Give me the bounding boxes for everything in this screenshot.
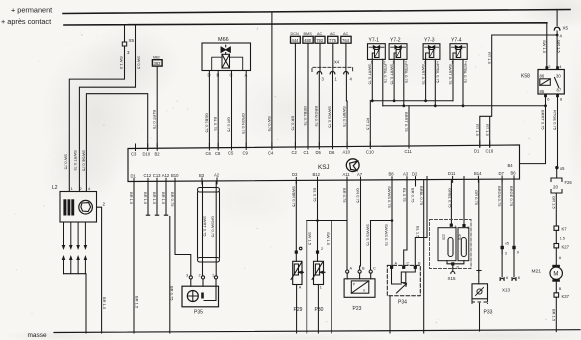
spark plug arrows up bbox=[64, 259, 86, 274]
svg-text:GR 1.5: GR 1.5 bbox=[556, 40, 561, 53]
svg-text:C11: C11 bbox=[405, 149, 413, 154]
svg-text:RTGE 0.75: RTGE 0.75 bbox=[553, 110, 558, 131]
svg-text:1: 1 bbox=[334, 77, 337, 82]
svg-text:X5: X5 bbox=[129, 38, 135, 43]
svg-text:X15: X15 bbox=[448, 276, 457, 281]
wire gnd drop 2 bbox=[330, 221, 332, 334]
svg-text:SWWS 0.75: SWWS 0.75 bbox=[384, 224, 389, 247]
wire 480 to KSJ C1 bbox=[307, 43, 309, 146]
svg-text:B12: B12 bbox=[313, 172, 321, 177]
svg-text:A10: A10 bbox=[343, 150, 351, 155]
wire K37 to masse BR 1.5 bbox=[555, 297, 557, 331]
wire M66 D to KSJ C6 bbox=[208, 71, 210, 147]
svg-text:BR 1.5: BR 1.5 bbox=[102, 297, 107, 310]
wire KSJ A12 stub bbox=[164, 181, 167, 215]
svg-text:A: A bbox=[350, 267, 353, 271]
connector X5 pin 3 bbox=[122, 42, 126, 46]
wire M66 B to KSJ C8 bbox=[217, 71, 219, 147]
junction B8 bus bbox=[391, 219, 394, 222]
svg-text:BRRT 0.75: BRRT 0.75 bbox=[404, 112, 409, 132]
svg-text:C8: C8 bbox=[215, 151, 221, 156]
svg-text:SWBR 0.75: SWBR 0.75 bbox=[291, 186, 296, 208]
svg-text:X5: X5 bbox=[563, 26, 569, 31]
wire M66 A to KSJ C9 bbox=[245, 71, 247, 147]
svg-text:BR 1.5: BR 1.5 bbox=[552, 309, 557, 322]
svg-text:P29: P29 bbox=[294, 307, 303, 313]
wire SWGE from L2 pin 4 to KSJ pin D10 bbox=[86, 94, 147, 192]
wire X4 pin 3 to KSJ D5 bbox=[318, 72, 320, 147]
svg-text:C13: C13 bbox=[153, 173, 161, 178]
svg-text:GRSW 0.75: GRSW 0.75 bbox=[210, 216, 215, 238]
wire K58 pin 6 to KSJ B4 BRRT 0.75 bbox=[520, 94, 546, 164]
KSJ bottom pin ticks bbox=[134, 176, 514, 185]
svg-text:D10: D10 bbox=[143, 151, 151, 156]
wire X13 mid left bbox=[501, 249, 503, 277]
wire KSJ D1 to masse BR 1.5 bbox=[133, 181, 135, 333]
wire M21 to K37 bbox=[555, 282, 557, 293]
ground bar wire to masse bbox=[64, 274, 87, 333]
wire KSJ to X15 pin C bbox=[463, 180, 465, 224]
pressure switch P33 bbox=[478, 272, 480, 284]
wire KSJ D11 to X15 GRBL 0.75 bbox=[450, 181, 452, 224]
wire KSJ B12 to P30 BL 0.75 bbox=[317, 181, 319, 251]
svg-text:C2: C2 bbox=[292, 150, 298, 155]
wire KSJ D7 to X13 BRGN 0.75 bbox=[501, 180, 503, 254]
svg-text:KSJ: KSJ bbox=[318, 164, 330, 171]
svg-text:B10: B10 bbox=[171, 173, 179, 178]
svg-text:C5: C5 bbox=[228, 151, 234, 156]
svg-text:2: 2 bbox=[321, 247, 323, 251]
svg-text:1: 1 bbox=[320, 286, 322, 290]
Opel logo bbox=[346, 159, 359, 172]
svg-text:1.5: 1.5 bbox=[560, 237, 565, 241]
svg-text:BR 0.75: BR 0.75 bbox=[290, 116, 295, 131]
wire KSJ B6 to X13 BRGE 0.75 bbox=[513, 180, 515, 254]
svg-text:SW 0.75: SW 0.75 bbox=[267, 116, 272, 132]
svg-text:B: B bbox=[559, 287, 562, 291]
wire K27 to M21 bbox=[555, 248, 557, 265]
svg-text:GRGN 0.75: GRGN 0.75 bbox=[241, 113, 246, 135]
svg-text:BR 0.75: BR 0.75 bbox=[342, 188, 347, 203]
svg-text:3: 3 bbox=[186, 274, 188, 278]
svg-text:4: 4 bbox=[560, 34, 563, 39]
connector K27 bbox=[554, 244, 559, 248]
bus Y7 pin1 collector bbox=[370, 100, 453, 102]
temp sensor P30 bbox=[317, 254, 319, 262]
svg-text:P35: P35 bbox=[194, 310, 203, 316]
svg-text:220: 220 bbox=[441, 234, 445, 240]
svg-text:8: 8 bbox=[518, 276, 520, 280]
svg-text:6: 6 bbox=[547, 97, 550, 102]
connector 382 bbox=[152, 60, 162, 66]
svg-text:1: 1 bbox=[212, 274, 214, 278]
connector X4 dashed bbox=[312, 67, 353, 71]
connector BMS 480 bbox=[303, 36, 313, 43]
svg-text:SW 1.5: SW 1.5 bbox=[542, 40, 547, 54]
svg-text:C: C bbox=[373, 267, 376, 271]
svg-text:8: 8 bbox=[560, 97, 563, 102]
motor M21 bbox=[552, 265, 560, 267]
wire KSJ A3 to P34 pin C BL 0.75 bbox=[404, 181, 407, 266]
svg-text:SWRT 0.75: SWRT 0.75 bbox=[203, 216, 208, 237]
wire KSJ to masse BRBL 0.75 bbox=[423, 181, 425, 333]
wire X4 pin 4 to KSJ A10 bbox=[345, 72, 347, 101]
svg-text:K7: K7 bbox=[562, 227, 568, 232]
svg-text:2: 2 bbox=[548, 64, 551, 69]
svg-text:C: C bbox=[467, 226, 470, 230]
wire branch to KSJ D1 C16 supply bbox=[480, 35, 557, 146]
svg-text:SWRT 0.75: SWRT 0.75 bbox=[368, 64, 373, 85]
connector AC 792 bbox=[315, 36, 325, 43]
svg-text:SW 0.75: SW 0.75 bbox=[64, 154, 69, 170]
wire KSJ A2 to P35 pin 1 GRSW 0.75 bbox=[215, 181, 217, 276]
K58 contact bbox=[555, 78, 559, 88]
svg-text:A: A bbox=[395, 262, 398, 266]
svg-text:87: 87 bbox=[557, 88, 562, 93]
X13 connector pin 8 bbox=[512, 278, 516, 281]
svg-text:SWBR 0.75: SWBR 0.75 bbox=[342, 106, 347, 128]
junction X5 wire / branch bbox=[556, 34, 559, 37]
P33 terminal bbox=[477, 270, 481, 272]
svg-text:U: U bbox=[363, 289, 366, 293]
connector K7 bbox=[554, 226, 559, 230]
wire Y7-2 pin1 SWRT 0.75 bbox=[393, 59, 395, 100]
ECU KSJ bbox=[128, 145, 520, 182]
svg-text:SWRT 0.75: SWRT 0.75 bbox=[73, 150, 78, 171]
svg-text:+ après contact: + après contact bbox=[1, 17, 51, 26]
svg-text:BRRT 0.75: BRRT 0.75 bbox=[541, 110, 546, 130]
wire permanent bus to KSJ C4 SW 0.75 bbox=[271, 13, 273, 147]
svg-text:A7: A7 bbox=[357, 172, 363, 177]
svg-text:A3: A3 bbox=[403, 172, 409, 177]
svg-text:D11: D11 bbox=[448, 171, 456, 176]
svg-text:BR 1.5: BR 1.5 bbox=[135, 296, 140, 309]
X15 resistor 470 bbox=[458, 228, 469, 261]
wire KSJ A7 to P23 pin B GN 0.75 bbox=[359, 181, 362, 270]
connector K37 bbox=[554, 293, 559, 297]
svg-text:BMS: BMS bbox=[304, 32, 313, 36]
svg-text:D7: D7 bbox=[499, 171, 505, 176]
wire KSJ B10 to P35 pin 3 bbox=[175, 181, 191, 276]
junction dots bus B bbox=[402, 104, 546, 107]
svg-text:DCN: DCN bbox=[291, 32, 299, 36]
svg-text:Y7-3: Y7-3 bbox=[424, 38, 435, 44]
wire fuse to K7 GR 1.5 bbox=[555, 193, 557, 226]
wire KSJ A11 to P23 pin A BR 0.75 bbox=[346, 181, 348, 270]
svg-text:RT 1.5: RT 1.5 bbox=[485, 124, 490, 137]
svg-text:SW 1.5: SW 1.5 bbox=[326, 232, 331, 246]
wire to fuse bbox=[556, 168, 558, 178]
wire P29 to masse bbox=[296, 285, 298, 334]
wire KSJ D2 stub bbox=[415, 181, 417, 186]
shielded cable bbox=[198, 188, 220, 193]
svg-text:C9: C9 bbox=[243, 151, 249, 156]
svg-text:BL 0.75: BL 0.75 bbox=[213, 117, 218, 131]
svg-text:BL 0.75: BL 0.75 bbox=[402, 188, 407, 202]
wire bus B to KSJ C11 bbox=[408, 106, 410, 146]
svg-text:D6: D6 bbox=[329, 150, 335, 155]
junction B12 bus bbox=[316, 219, 319, 222]
svg-text:D1: D1 bbox=[131, 173, 137, 178]
svg-text:SWRT 0.75: SWRT 0.75 bbox=[389, 64, 394, 85]
KSJ bottom pin labels bbox=[131, 171, 517, 179]
temp sensor P29 bbox=[295, 254, 297, 262]
KSJ top pin ticks bbox=[136, 141, 490, 151]
svg-text:D3: D3 bbox=[292, 172, 298, 177]
svg-text:F26: F26 bbox=[565, 180, 573, 185]
P35 pin terminals 3 2 1 bbox=[189, 276, 192, 279]
svg-text:20: 20 bbox=[553, 185, 559, 190]
svg-text:6: 6 bbox=[506, 276, 508, 280]
wire X13 mid right bbox=[513, 249, 515, 277]
wire BLRT 0.75 to KSJ pin B2 bbox=[156, 66, 158, 147]
svg-text:P23: P23 bbox=[353, 306, 362, 312]
svg-text:A: A bbox=[454, 225, 457, 229]
sensor P35 bbox=[191, 279, 216, 286]
svg-text:764: 764 bbox=[342, 38, 350, 43]
wire apres contact to K58 pin 2 bbox=[546, 23, 548, 70]
wire SW 0.5 apres to L2 pin 2 bbox=[79, 25, 135, 192]
X13 inline connector x5 right bbox=[512, 246, 515, 249]
svg-text:SW 1.5: SW 1.5 bbox=[119, 56, 124, 70]
wire + permanent bus bbox=[63, 10, 570, 14]
wire M66 C to KSJ C5 bbox=[231, 71, 233, 147]
svg-text:RTBL 0.75: RTBL 0.75 bbox=[463, 64, 468, 84]
X13 connector pin 6 bbox=[500, 278, 504, 281]
svg-text:85: 85 bbox=[540, 89, 545, 94]
svg-text:RT 1.5: RT 1.5 bbox=[365, 118, 370, 131]
svg-text:D2: D2 bbox=[412, 172, 418, 177]
resistor pack X15 outer dashed box bbox=[430, 220, 472, 269]
svg-text:AC: AC bbox=[343, 32, 349, 36]
svg-text:B4: B4 bbox=[508, 163, 514, 168]
wire K58 pin 8 down RTGE 0.75 bbox=[557, 94, 559, 168]
svg-text:K37: K37 bbox=[562, 294, 570, 299]
svg-text:C12: C12 bbox=[144, 173, 152, 178]
svg-text:B: B bbox=[362, 267, 365, 271]
svg-text:B: B bbox=[418, 262, 421, 266]
X4 socket 3 bbox=[317, 72, 322, 74]
wire ground BR 0.75 to masse bbox=[169, 217, 171, 334]
connector X5 top right bbox=[554, 27, 560, 30]
svg-text:SWRT 0.75: SWRT 0.75 bbox=[448, 64, 453, 85]
svg-text:M66: M66 bbox=[218, 37, 229, 43]
wire Y7-1 pin1 SWRT 0.75 bbox=[371, 59, 373, 100]
svg-text:AC: AC bbox=[330, 32, 336, 36]
wire Y7-2 pin2 RTBL 0.75 bbox=[403, 59, 405, 105]
wire KSJ B8 to P34 pin A SWWS 0.75 bbox=[391, 181, 393, 266]
wire Y7-4 pin2 RTBL 0.75 bbox=[462, 59, 464, 105]
svg-text:C1: C1 bbox=[304, 150, 310, 155]
X15 pin A bbox=[450, 224, 453, 227]
wire K7 to K27 bbox=[555, 230, 557, 243]
L2 coil bars bbox=[63, 199, 74, 215]
wire KSJ B3 to P35 pin 2 SWRT 0.75 bbox=[202, 181, 204, 276]
svg-text:A: A bbox=[299, 286, 302, 290]
svg-text:M21: M21 bbox=[532, 269, 542, 275]
svg-text:BRGN 0.75: BRGN 0.75 bbox=[314, 106, 319, 127]
svg-text:GEBL 0.75: GEBL 0.75 bbox=[303, 106, 308, 126]
svg-text:382: 382 bbox=[154, 61, 162, 66]
wire Y7-3 pin1 SWRT 0.75 bbox=[425, 59, 427, 100]
X15 pin C bbox=[462, 224, 465, 227]
svg-text:4: 4 bbox=[350, 77, 353, 82]
svg-text:C6: C6 bbox=[206, 151, 212, 156]
K58 coil bbox=[540, 79, 551, 86]
svg-text:P: P bbox=[353, 283, 355, 287]
svg-text:C16: C16 bbox=[486, 148, 494, 153]
svg-text:792: 792 bbox=[316, 38, 324, 43]
svg-text:BRGN 0.75: BRGN 0.75 bbox=[497, 186, 502, 207]
wire Y7-3 pin2 RTBL 0.75 bbox=[434, 59, 436, 105]
wire KSJ B14 to P33 GR 0.75 bbox=[478, 180, 480, 270]
wire P30 to masse bbox=[317, 285, 319, 334]
wire KSJ D3 to P29 SWBR 0.75 bbox=[295, 181, 297, 251]
svg-text:BLRT 0.75: BLRT 0.75 bbox=[152, 110, 157, 130]
svg-text:SW 1.5: SW 1.5 bbox=[307, 232, 312, 246]
svg-text:775: 775 bbox=[329, 38, 337, 43]
svg-text:BR 1.5: BR 1.5 bbox=[161, 192, 166, 205]
svg-text:X4: X4 bbox=[334, 60, 340, 65]
svg-text:D: D bbox=[457, 266, 460, 270]
sensor P23 bbox=[347, 273, 371, 279]
svg-text:A: A bbox=[559, 256, 562, 260]
wire permanent to K58 pin 4 via X5 bbox=[556, 10, 558, 70]
bus sensors 1 bbox=[307, 220, 347, 222]
svg-text:BRGE 0.75: BRGE 0.75 bbox=[509, 186, 514, 207]
svg-text:SWGE 0.75: SWGE 0.75 bbox=[82, 150, 87, 172]
fuse F26 20A bbox=[551, 178, 562, 193]
connector DCN 444 bbox=[291, 36, 301, 43]
svg-text:SWWS 0.75: SWWS 0.75 bbox=[327, 106, 332, 129]
svg-text:A11: A11 bbox=[343, 172, 351, 177]
svg-text:MB3: MB3 bbox=[153, 56, 160, 60]
svg-text:4: 4 bbox=[559, 64, 562, 69]
X15 pin D output bbox=[447, 261, 464, 268]
svg-text:+ permanent: + permanent bbox=[11, 6, 52, 15]
node x5 junction bbox=[555, 166, 558, 169]
wire 764 to X4 pin 4 bbox=[345, 43, 347, 71]
valve M66 bbox=[202, 43, 251, 71]
svg-text:B3: B3 bbox=[199, 173, 205, 178]
P30 terminal bbox=[316, 251, 319, 254]
svg-text:X13: X13 bbox=[502, 288, 511, 293]
wire bus A to KSJ C10 bbox=[369, 101, 371, 146]
solenoid valve Y7-3 bbox=[423, 38, 440, 65]
svg-text:C3: C3 bbox=[131, 152, 137, 157]
X13 inline connector x5 left bbox=[501, 246, 504, 249]
svg-text:480: 480 bbox=[304, 38, 312, 43]
svg-text:SW 0.5: SW 0.5 bbox=[136, 56, 141, 70]
svg-text:BR 1.5: BR 1.5 bbox=[143, 192, 148, 205]
svg-text:GEBL 0.75: GEBL 0.75 bbox=[204, 113, 209, 133]
svg-text:RT 1.5: RT 1.5 bbox=[475, 124, 480, 137]
svg-text:D1: D1 bbox=[474, 149, 480, 154]
svg-text:Y7-4: Y7-4 bbox=[451, 38, 462, 44]
X4 socket 1 bbox=[330, 72, 335, 74]
relay K58 bbox=[538, 70, 564, 95]
svg-text:30: 30 bbox=[556, 74, 561, 79]
wire gnd drop 1 bbox=[306, 221, 308, 334]
svg-text:Y7-1: Y7-1 bbox=[369, 38, 380, 44]
M66 motor rect with X bbox=[222, 54, 230, 68]
svg-text:GRBL 0.75: GRBL 0.75 bbox=[448, 188, 453, 208]
svg-text:masse: masse bbox=[28, 332, 48, 339]
svg-text:C10: C10 bbox=[366, 150, 374, 155]
svg-text:GR 0.75: GR 0.75 bbox=[474, 190, 479, 206]
svg-text:K27: K27 bbox=[562, 245, 570, 250]
svg-text:BR 1.5: BR 1.5 bbox=[129, 192, 134, 205]
svg-text:BRBL 0.75: BRBL 0.75 bbox=[419, 186, 424, 206]
svg-text:P30: P30 bbox=[315, 307, 324, 313]
svg-text:SWRT 0.75: SWRT 0.75 bbox=[421, 64, 426, 85]
svg-text:B2: B2 bbox=[155, 151, 161, 156]
solenoid valve Y7-4 bbox=[450, 38, 467, 65]
svg-text:BR 0.75: BR 0.75 bbox=[410, 188, 415, 203]
svg-text:B14: B14 bbox=[474, 171, 482, 176]
svg-text:M: M bbox=[553, 272, 558, 278]
svg-text:P34: P34 bbox=[398, 300, 407, 306]
junction dots bus A bbox=[371, 99, 427, 102]
ground masse line bbox=[54, 330, 580, 333]
svg-text:L2: L2 bbox=[52, 185, 58, 191]
sensor P34 bbox=[387, 265, 420, 295]
svg-text:BR 0.75: BR 0.75 bbox=[170, 192, 175, 207]
svg-text:AC: AC bbox=[317, 32, 323, 36]
wire apres drop to X5 left bbox=[124, 25, 126, 42]
svg-text:P33: P33 bbox=[484, 310, 493, 316]
wire P33 to masse bbox=[479, 303, 481, 331]
svg-text:GR 1.5: GR 1.5 bbox=[552, 196, 557, 209]
wire A10 drop bbox=[346, 101, 348, 146]
wire KSJ to P34 pin B bbox=[415, 181, 427, 266]
svg-text:BL 1.5: BL 1.5 bbox=[415, 226, 420, 238]
wire P34 to masse bbox=[389, 296, 391, 333]
wire Y7-4 pin1 SWRT 0.75 bbox=[452, 59, 454, 100]
wire SW 1.5 from X5 to L2 pin 1 bbox=[69, 46, 124, 192]
wire Y7-1 pin2 RTBL 0.75 bbox=[382, 59, 384, 105]
ignition module L2 bbox=[60, 192, 97, 223]
svg-text:BR 1.5: BR 1.5 bbox=[152, 192, 157, 205]
wire KSJ C12 stub bbox=[146, 181, 149, 215]
svg-text:RT 1.5: RT 1.5 bbox=[487, 52, 492, 65]
svg-text:B8: B8 bbox=[389, 172, 395, 177]
svg-text:3: 3 bbox=[505, 252, 507, 256]
svg-text:GR 0.75: GR 0.75 bbox=[226, 117, 231, 133]
svg-text:A12: A12 bbox=[162, 173, 170, 178]
solenoid valve Y7-2 bbox=[389, 38, 407, 65]
wire L2 pin 2 to masse BR 1.5 bbox=[97, 207, 102, 333]
connector AC 775 bbox=[328, 36, 338, 43]
X4 socket 4 bbox=[344, 72, 349, 74]
svg-text:K58: K58 bbox=[521, 74, 530, 80]
P23 pin terminals A B C bbox=[346, 270, 349, 273]
svg-text:A2: A2 bbox=[214, 173, 220, 178]
svg-text:444: 444 bbox=[292, 38, 300, 43]
svg-text:D5: D5 bbox=[316, 150, 322, 155]
svg-text:C4: C4 bbox=[268, 150, 274, 155]
connector AC 764 bbox=[341, 36, 351, 43]
svg-text:470: 470 bbox=[458, 234, 462, 240]
wire 792 to X4 pin 3 bbox=[319, 43, 321, 71]
wire bus2 to P23 pin C SWWS 0.75 bbox=[370, 221, 372, 271]
svg-text:x5: x5 bbox=[505, 242, 509, 246]
solenoid valve Y7-1 bbox=[368, 38, 386, 65]
svg-text:x5: x5 bbox=[560, 166, 565, 171]
wire X4 pin 1 to KSJ D6 bbox=[332, 72, 334, 147]
svg-text:2: 2 bbox=[199, 274, 201, 278]
svg-text:RTBL 0.75: RTBL 0.75 bbox=[404, 64, 409, 84]
